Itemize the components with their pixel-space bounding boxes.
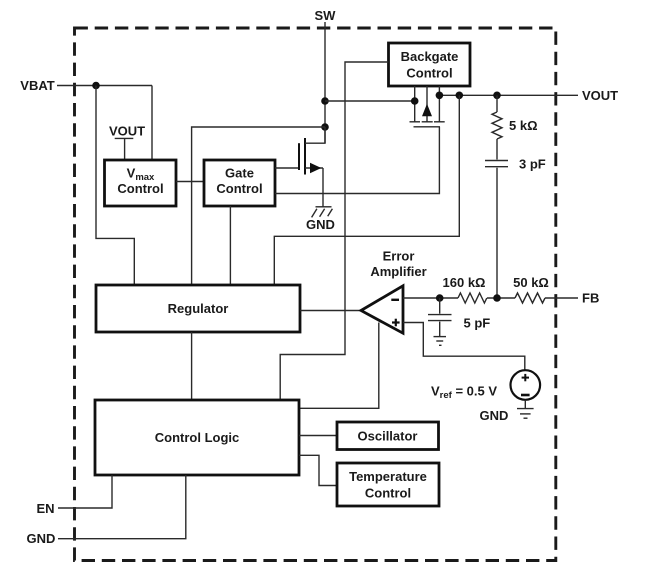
source V1 minus sign (521, 394, 530, 397)
source V1 Vref 0.5V (511, 370, 541, 400)
wire Q1 drain (305, 127, 325, 143)
block Temperature Control (337, 463, 439, 506)
wire EN (58, 475, 112, 508)
wire error amp output to Regulator (300, 310, 361, 312)
transistor Q2 bulk arrow (422, 104, 432, 117)
wire SW vertical (324, 22, 326, 143)
svg-text:Oscillator: Oscillator (358, 429, 418, 444)
svg-text:EN: EN (36, 501, 54, 516)
svg-text:Control: Control (117, 181, 163, 196)
op-amp U1 plus sign (392, 321, 400, 323)
wire 50k to FB pin (545, 297, 578, 299)
wire VOUT terminal bar (115, 137, 134, 139)
wire SW to backgate left terminal (325, 100, 415, 102)
transistor Q2 terminal bars (410, 121, 445, 123)
svg-text:Control: Control (216, 181, 262, 196)
wire Vmax Control to Gate Control (176, 181, 204, 183)
svg-text:Gate: Gate (225, 166, 254, 181)
wire VOUT rail (439, 94, 578, 96)
svg-text:3 pF: 3 pF (519, 157, 546, 172)
ground below 5pF (434, 337, 447, 346)
resistor 160k (458, 293, 487, 303)
svg-text:Error: Error (383, 249, 415, 264)
wire SW branch to regulator (192, 127, 325, 285)
block Control Logic (95, 400, 299, 475)
wire VBAT input (57, 85, 152, 87)
node inverting input 5pF branch (436, 294, 444, 302)
svg-text:5 kΩ: 5 kΩ (509, 118, 538, 133)
wire Q1 source to ground (322, 168, 324, 207)
svg-text:VBAT: VBAT (20, 78, 54, 93)
capacitor 5pF (428, 315, 452, 321)
wire VBAT to Vmax Control top (151, 86, 153, 161)
wire Vref to ground (524, 400, 526, 409)
svg-text:50 kΩ: 50 kΩ (513, 275, 549, 290)
capacitor 3pF (485, 161, 508, 167)
svg-text:GND: GND (480, 408, 509, 423)
svg-text:Regulator: Regulator (168, 301, 229, 316)
svg-text:Control Logic: Control Logic (155, 430, 240, 445)
source V1 plus sign (522, 377, 529, 379)
op-amp U1 minus sign (391, 299, 399, 301)
node SW lower junction (321, 123, 329, 131)
wire non-inverting input to Vref (403, 323, 525, 371)
svg-text:160 kΩ: 160 kΩ (443, 275, 486, 290)
transistor Q2 backgate FET bulk terminal (426, 86, 428, 122)
ground GND near Q1 (312, 207, 333, 218)
wire Gate Control to backgate FET gate (275, 127, 439, 194)
node VOUT rail feedback branch (456, 92, 464, 100)
block Backgate Control (389, 43, 471, 86)
block Regulator (96, 285, 300, 332)
resistor 5k zigzag (492, 112, 502, 139)
svg-text:VOUT: VOUT (109, 124, 145, 139)
capacitor 5pF lead (439, 298, 441, 314)
wire op-amp lower edge to Control Logic (299, 323, 379, 409)
wire VOUT stub to Vmax Control (124, 138, 126, 160)
svg-text:Backgate: Backgate (401, 49, 459, 64)
node VBAT junction (92, 82, 100, 90)
wire VOUT sense down to regulator (274, 95, 459, 285)
wire Q1 source (305, 167, 323, 169)
svg-text:GND: GND (27, 531, 56, 546)
transistor Q2 backgate FET right terminal (438, 86, 440, 122)
wire Backgate Control left pin to Control Logic (280, 62, 388, 400)
svg-text:Control: Control (406, 66, 452, 81)
wire GND (58, 475, 186, 539)
wire FB / inverting input line (403, 297, 458, 299)
svg-text:SW: SW (315, 8, 337, 23)
wire 3pF down to FB node (496, 168, 498, 298)
node VOUT rail at backgate (436, 92, 444, 100)
wire 5pF to ground (439, 322, 441, 337)
transistor Q1 NMOS channel plate (304, 138, 306, 175)
svg-text:Temperature: Temperature (349, 469, 427, 484)
svg-text:Amplifier: Amplifier (370, 264, 426, 279)
node SW upper junction (321, 97, 329, 105)
ground below Vref (517, 409, 534, 419)
transistor Q2 gate plate (414, 126, 441, 128)
node FB divider junction (493, 294, 501, 302)
block Gate Control (204, 160, 275, 206)
svg-text:VOUT: VOUT (582, 88, 618, 103)
transistor Q1 source arrow (310, 163, 321, 174)
svg-text:GND: GND (306, 217, 335, 232)
wire between resistors (487, 297, 515, 299)
block Oscillator (337, 422, 439, 450)
wire Regulator bottom to Control Logic (191, 332, 193, 400)
op-amp U1 error amplifier (361, 286, 403, 333)
wire Gate Control to NMOS gate (275, 167, 299, 169)
wire VBAT down to regulator (96, 86, 134, 286)
block Vmax Control (105, 160, 177, 206)
transistor Q2 backgate FET left terminal (414, 86, 416, 122)
wire Control Logic to Oscillator (299, 435, 337, 437)
svg-text:5 pF: 5 pF (464, 316, 491, 331)
svg-text:FB: FB (582, 291, 599, 306)
node backgate left terminal junction (411, 97, 419, 105)
transistor Q1 NMOS gate plate (298, 143, 300, 170)
resistor 50k (515, 293, 545, 303)
node VOUT rail divider branch (493, 92, 501, 100)
wire Control Logic to Temperature Control (299, 455, 337, 485)
resistor 5k lead (496, 95, 498, 112)
wire 5k to 3pF (496, 139, 498, 160)
wire Gate Control bottom to Regulator (229, 206, 231, 285)
svg-text:Control: Control (365, 486, 411, 501)
IC boundary dashed box (75, 28, 556, 561)
